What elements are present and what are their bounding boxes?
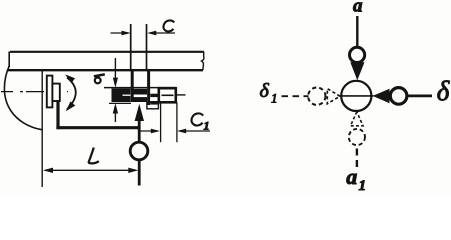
svg-text:1: 1 bbox=[204, 119, 210, 133]
svg-text:δ: δ bbox=[437, 76, 450, 106]
svg-text:a: a bbox=[346, 164, 357, 189]
svg-text:1: 1 bbox=[359, 178, 367, 194]
svg-text:a: a bbox=[353, 0, 363, 17]
svg-text:1: 1 bbox=[271, 91, 278, 106]
svg-text:δ: δ bbox=[260, 80, 270, 102]
